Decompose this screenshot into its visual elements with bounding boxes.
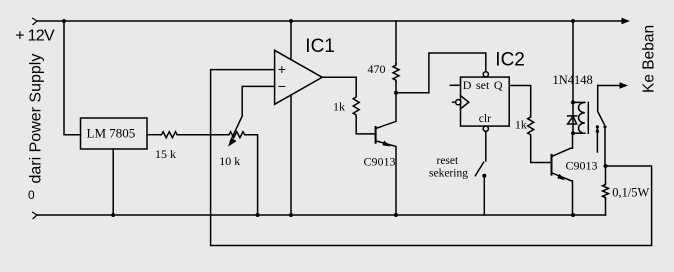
svg-text:+ 12V: + 12V — [15, 28, 55, 45]
svg-text:10 k: 10 k — [219, 154, 240, 168]
svg-text:reset: reset — [437, 155, 460, 167]
svg-text:−: − — [278, 78, 286, 94]
svg-text:IC1: IC1 — [305, 36, 335, 57]
svg-text:D: D — [463, 78, 472, 92]
svg-text:sekering: sekering — [429, 168, 468, 180]
svg-text:Ke Beban: Ke Beban — [640, 25, 657, 93]
svg-text:0,1/5W: 0,1/5W — [612, 186, 649, 200]
svg-text:0: 0 — [28, 188, 35, 202]
svg-text:470: 470 — [368, 62, 386, 76]
svg-text:Q: Q — [494, 78, 503, 92]
svg-text:15 k: 15 k — [155, 147, 176, 161]
svg-text:IC2: IC2 — [495, 49, 525, 70]
svg-text:1k: 1k — [333, 99, 345, 113]
svg-text:clr: clr — [479, 113, 491, 125]
svg-text:LM 7805: LM 7805 — [87, 125, 136, 140]
svg-text:set: set — [476, 78, 490, 92]
svg-text:1N4148: 1N4148 — [553, 73, 593, 87]
svg-text:1k: 1k — [515, 118, 527, 132]
svg-text:C9013: C9013 — [364, 154, 396, 168]
svg-text:+: + — [278, 61, 286, 77]
svg-text:dari Power Supply: dari Power Supply — [28, 54, 45, 184]
svg-text:C9013: C9013 — [566, 159, 598, 173]
